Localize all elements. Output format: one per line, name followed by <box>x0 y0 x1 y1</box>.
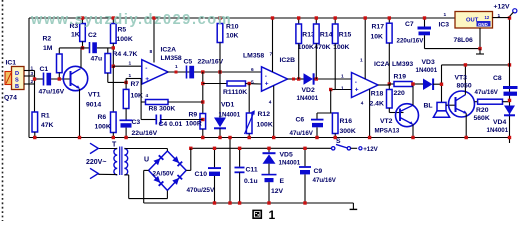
svg-text:8050: 8050 <box>457 83 472 90</box>
svg-text:IC3: IC3 <box>439 22 450 29</box>
svg-text:+12V: +12V <box>363 146 378 153</box>
svg-text:6: 6 <box>251 67 254 73</box>
svg-text:2A/50V: 2A/50V <box>153 171 175 178</box>
svg-text:100K: 100K <box>257 122 273 129</box>
svg-text:3: 3 <box>31 71 34 77</box>
svg-text:1K: 1K <box>71 32 80 39</box>
svg-text:1: 1 <box>269 208 276 221</box>
svg-text:R1110K: R1110K <box>223 89 247 96</box>
svg-text:4: 4 <box>146 93 149 99</box>
svg-text:R4 4.7K: R4 4.7K <box>113 51 138 58</box>
svg-text:C1: C1 <box>40 66 49 73</box>
svg-text:IC1: IC1 <box>6 60 17 67</box>
svg-text:47u/16V: 47u/16V <box>39 89 65 96</box>
svg-text:1N4001: 1N4001 <box>219 112 241 119</box>
svg-text:Q74: Q74 <box>4 95 17 102</box>
svg-text:VD1: VD1 <box>221 102 234 109</box>
svg-text:IC2A: IC2A <box>161 47 177 54</box>
svg-text:VD5: VD5 <box>280 152 293 159</box>
svg-text:47u: 47u <box>91 56 103 63</box>
svg-text:100K: 100K <box>95 124 111 131</box>
svg-text:C5: C5 <box>184 59 193 66</box>
svg-text:LM393: LM393 <box>392 61 413 68</box>
svg-text:1: 1 <box>341 74 344 80</box>
svg-text:1: 1 <box>31 66 34 72</box>
svg-text:0.1u: 0.1u <box>244 178 258 185</box>
svg-text:1M: 1M <box>43 45 53 52</box>
svg-text:-: - <box>145 65 147 72</box>
svg-text:R20: R20 <box>476 107 489 114</box>
svg-text:BL: BL <box>424 103 433 110</box>
svg-text:MPSA13: MPSA13 <box>375 128 400 135</box>
svg-text:VD3: VD3 <box>422 59 435 66</box>
svg-text:VT1: VT1 <box>88 92 101 99</box>
svg-text:1: 1 <box>129 73 132 79</box>
svg-text:78L06: 78L06 <box>454 37 473 44</box>
svg-text:1: 1 <box>175 64 178 70</box>
svg-text:GND: GND <box>478 22 488 27</box>
svg-text:1N4001: 1N4001 <box>297 95 319 102</box>
svg-text:R1: R1 <box>41 113 50 120</box>
svg-text:+: + <box>145 76 149 83</box>
svg-text:22u/16V: 22u/16V <box>132 130 158 137</box>
svg-text:12V: 12V <box>271 188 284 195</box>
svg-text:7: 7 <box>270 52 273 58</box>
svg-text:+: + <box>265 81 269 88</box>
svg-text:R2: R2 <box>43 36 52 43</box>
svg-text:R9: R9 <box>189 112 198 119</box>
svg-text:C6: C6 <box>296 117 305 124</box>
svg-text:R17: R17 <box>372 24 385 31</box>
svg-text:1N4001: 1N4001 <box>487 127 509 134</box>
svg-text:10K: 10K <box>371 34 384 41</box>
svg-text:R8 300K: R8 300K <box>149 106 176 113</box>
svg-text:R6: R6 <box>98 114 107 121</box>
svg-text:220V~: 220V~ <box>86 159 106 166</box>
svg-text:1: 1 <box>341 86 344 92</box>
svg-text:100K: 100K <box>298 44 314 51</box>
svg-text:R14: R14 <box>320 31 333 38</box>
svg-text:www.syuzdiy.dz029.com: www.syuzdiy.dz029.com <box>30 12 232 28</box>
svg-text:2.4K: 2.4K <box>370 101 384 108</box>
svg-text:R16: R16 <box>340 118 353 125</box>
svg-text:47K: 47K <box>41 122 54 129</box>
svg-text:1: 1 <box>129 61 132 67</box>
svg-text:R12: R12 <box>258 111 271 118</box>
svg-text:-: - <box>265 73 267 80</box>
svg-text:IC2A: IC2A <box>374 61 390 68</box>
svg-text:C7: C7 <box>405 21 414 28</box>
svg-text:C11: C11 <box>246 167 258 174</box>
svg-text:220: 220 <box>394 90 406 97</box>
svg-text:VD4: VD4 <box>493 119 506 126</box>
svg-text:C10: C10 <box>195 171 208 178</box>
svg-text:+: + <box>355 87 359 94</box>
svg-text:VD2: VD2 <box>302 87 315 94</box>
svg-text:S: S <box>15 78 19 84</box>
svg-text:560K: 560K <box>474 115 490 122</box>
svg-text:100R: 100R <box>186 121 202 128</box>
svg-text:C4 0.01: C4 0.01 <box>159 121 183 128</box>
svg-text:C2: C2 <box>88 32 97 39</box>
svg-text:47u/16V: 47u/16V <box>475 89 499 96</box>
svg-text:12: 12 <box>485 15 490 20</box>
svg-text:R19: R19 <box>394 74 407 81</box>
svg-text:D: D <box>15 71 19 77</box>
svg-text:U: U <box>144 157 149 164</box>
svg-text:4: 4 <box>361 101 364 107</box>
svg-text:47u/16V: 47u/16V <box>313 177 337 184</box>
svg-text:1: 1 <box>444 12 447 18</box>
svg-text:LM358: LM358 <box>243 53 264 60</box>
svg-text:T: T <box>112 142 117 149</box>
svg-text:C3: C3 <box>132 119 141 126</box>
svg-text:100K: 100K <box>117 36 133 43</box>
svg-text:1: 1 <box>360 58 363 64</box>
svg-text:R15: R15 <box>339 31 352 38</box>
svg-text:VT2: VT2 <box>380 118 393 125</box>
svg-text:1N4001: 1N4001 <box>279 160 301 167</box>
svg-text:VT3: VT3 <box>455 75 468 82</box>
svg-text:10K: 10K <box>226 33 239 40</box>
svg-text:5: 5 <box>251 80 254 86</box>
svg-text:R18: R18 <box>371 91 384 98</box>
svg-text:300K: 300K <box>340 128 356 135</box>
svg-text:470u/25V: 470u/25V <box>187 187 215 194</box>
svg-text:S: S <box>336 138 341 145</box>
svg-text:9014: 9014 <box>86 102 101 109</box>
svg-text:C9: C9 <box>314 168 323 175</box>
svg-text:4: 4 <box>269 100 272 106</box>
svg-text:R7: R7 <box>131 81 140 88</box>
svg-text:1N4001: 1N4001 <box>416 67 438 74</box>
svg-text:-: - <box>355 79 357 86</box>
svg-text:220u/16V: 220u/16V <box>397 38 425 45</box>
svg-text:B: B <box>15 84 19 90</box>
svg-text:8: 8 <box>150 49 153 55</box>
svg-text:+12V: +12V <box>494 4 511 11</box>
svg-text:47u/16V: 47u/16V <box>290 130 314 137</box>
svg-text:E: E <box>280 178 285 185</box>
svg-text:C8: C8 <box>493 75 502 82</box>
svg-text:IC2B: IC2B <box>280 57 296 64</box>
svg-text:LM358: LM358 <box>161 55 182 62</box>
